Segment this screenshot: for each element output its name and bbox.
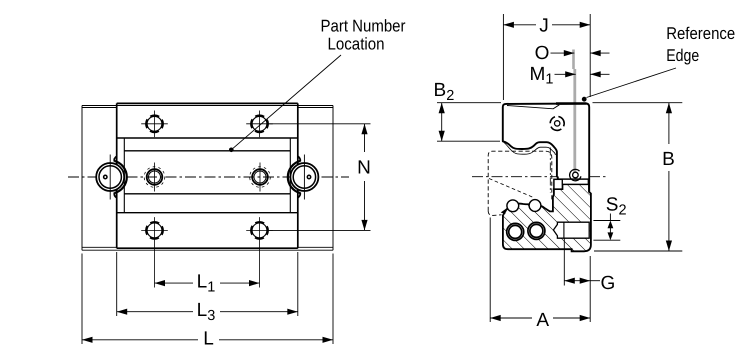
rail outline [82, 106, 333, 251]
svg-text:Location: Location [328, 35, 385, 54]
dimension B [593, 103, 683, 251]
top edge redrawn over band [556, 102, 587, 105]
hole T1 [141, 111, 168, 138]
bore left [507, 223, 524, 240]
dimension B2 [434, 80, 502, 141]
svg-text:N: N [357, 158, 371, 179]
hole B2 [246, 217, 273, 287]
dimension O [535, 43, 610, 64]
middle row holes [144, 163, 270, 192]
reference edge dot [582, 97, 587, 102]
hole B1 [141, 217, 168, 287]
svg-text:Reference: Reference [666, 24, 735, 43]
block inner horizontal lines [117, 138, 298, 213]
screw circle above rect [573, 172, 579, 178]
reference edge leader [587, 68, 677, 98]
side slot [553, 222, 589, 238]
horizontal centerline left view [68, 176, 349, 178]
svg-text:O: O [535, 43, 550, 64]
ball left [507, 200, 519, 212]
thin chamfer wedge under top edge [507, 105, 559, 109]
hole M1 [144, 163, 165, 192]
left end boss [96, 155, 127, 200]
dimension L3 [117, 252, 298, 324]
bolt hole circles bottom row [141, 217, 273, 287]
right end boss [288, 155, 319, 200]
dimension M1 [530, 64, 610, 88]
carriage body [503, 50, 589, 192]
dimension G [564, 239, 615, 323]
ball right [529, 200, 541, 212]
svg-text:L: L [203, 328, 214, 349]
bore right [528, 222, 545, 239]
flag on rail left [501, 209, 507, 215]
svg-text:B: B [662, 149, 675, 170]
part number annotation [229, 17, 406, 153]
white rect above slot [562, 179, 588, 184]
hole T2 [246, 111, 273, 138]
block outline [117, 103, 298, 248]
hole M2 [250, 163, 271, 192]
base block (hatched) [501, 184, 591, 251]
shaft gray band (reference edge of shaft) [572, 50, 575, 70]
dimension L [82, 254, 333, 350]
centerlines right view [472, 176, 607, 178]
svg-text:Part Number: Part Number [321, 17, 406, 36]
dimension J [503, 14, 590, 100]
svg-text:Edge: Edge [666, 46, 699, 65]
dimension N [269, 124, 371, 231]
dimension S2 [593, 195, 626, 241]
svg-text:A: A [536, 310, 549, 331]
bolt hole circles top row [141, 111, 273, 138]
dimension L1 [155, 272, 260, 296]
dimension A [490, 218, 590, 331]
phantom dashed outline [488, 151, 552, 215]
right edge extension to base [588, 179, 590, 192]
step rect (clamp foot) [554, 179, 563, 189]
svg-text:J: J [539, 15, 549, 36]
block inner vertical lines [124, 138, 290, 213]
svg-text:G: G [601, 273, 616, 294]
thin seal line under carriage [504, 143, 555, 156]
shutter symbol (set screw) [555, 121, 560, 126]
